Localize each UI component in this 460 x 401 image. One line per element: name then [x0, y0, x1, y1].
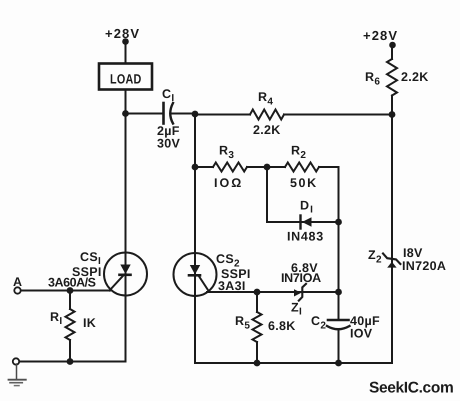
svg-text:+28V: +28V — [105, 26, 140, 41]
svg-text:3A60A/S: 3A60A/S — [48, 275, 96, 289]
svg-text:6.8K: 6.8K — [268, 319, 296, 333]
svg-text:2.2K: 2.2K — [253, 123, 281, 137]
svg-text:IOV: IOV — [350, 327, 373, 341]
svg-text:IN720A: IN720A — [402, 259, 446, 273]
svg-text:IOΩ: IOΩ — [214, 176, 243, 190]
svg-text:50K: 50K — [290, 176, 318, 190]
svg-text:30V: 30V — [157, 137, 181, 151]
svg-text:LOAD: LOAD — [110, 72, 142, 87]
svg-text:2.2K: 2.2K — [401, 70, 429, 84]
svg-text:A: A — [13, 275, 22, 289]
svg-text:IN7IOA: IN7IOA — [281, 271, 321, 285]
svg-text:IN483: IN483 — [287, 230, 324, 244]
svg-text:IK: IK — [83, 316, 96, 330]
svg-text:3A3I: 3A3I — [218, 279, 246, 293]
svg-text:+28V: +28V — [363, 28, 398, 43]
svg-text:SeekIC.com: SeekIC.com — [369, 380, 453, 397]
svg-text:I8V: I8V — [403, 246, 423, 260]
